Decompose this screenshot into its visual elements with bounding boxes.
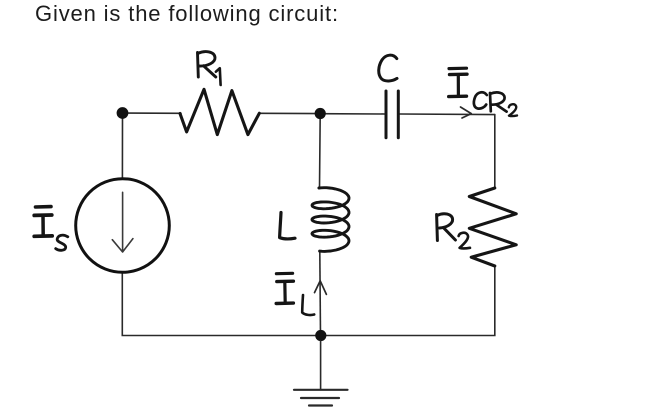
bottom junction node dot <box>315 330 326 341</box>
label R2 (resistor) <box>437 214 470 249</box>
current arrow I_CR2 <box>461 107 472 118</box>
wire node A to R1 <box>123 112 182 114</box>
resistor R1 <box>180 89 259 134</box>
wire node B to capacitor C <box>320 113 384 115</box>
resistor R2 <box>469 188 516 266</box>
label C (capacitor) <box>379 55 397 81</box>
label I_s (current source) <box>34 207 68 251</box>
label R1 <box>198 52 221 85</box>
wire ground node to bottom-left corner and up to current source <box>122 272 316 335</box>
wire current source to node A <box>121 113 123 179</box>
capacitor C <box>386 91 398 138</box>
wire R2 to bottom-right corner and left to ground node <box>326 266 495 336</box>
title text <box>35 1 339 27</box>
node A junction dot <box>117 107 129 119</box>
current arrow I_L <box>315 281 327 295</box>
wire capacitor to top-right corner <box>400 113 495 116</box>
wire node B down to inductor L <box>319 114 322 189</box>
label I_CR2 <box>449 68 517 116</box>
current source Is <box>76 179 170 273</box>
wire top-right corner down to R2 <box>494 115 496 188</box>
node B junction dot <box>315 108 326 119</box>
wire R1 to node B <box>259 112 320 114</box>
wire inductor L down to ground node (through arrow) <box>319 251 322 336</box>
label I_L <box>276 273 314 315</box>
inductor L <box>312 188 349 252</box>
ground <box>294 341 348 406</box>
label L (inductor) <box>280 213 295 239</box>
